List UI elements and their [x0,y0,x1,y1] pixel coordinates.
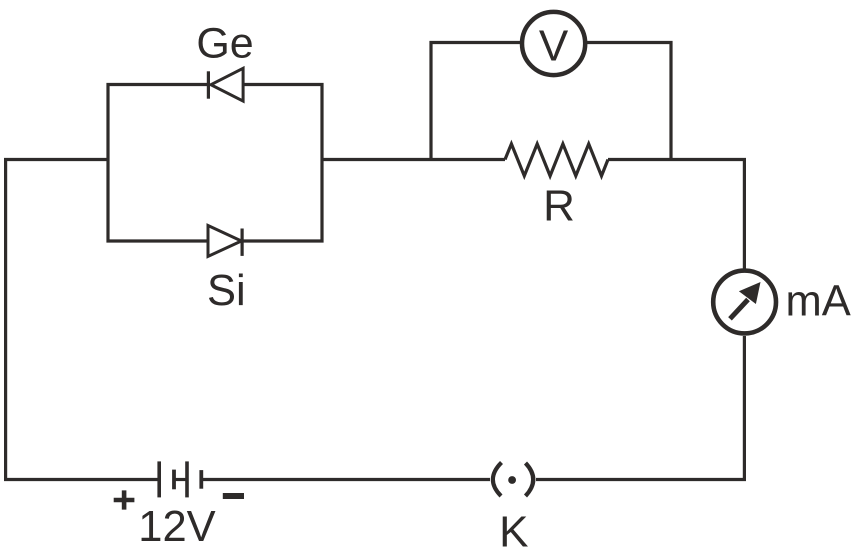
battery B1 12V: positive long plate (cell 2) [185,461,189,497]
battery polarity + sign [114,490,135,509]
milliammeter mA: needle arrowhead [739,282,761,304]
wire right: mA meter top up and left along main line to resistor right end [608,160,744,269]
wire voltmeter branch left: from main line up to V meter [431,43,520,160]
svg-text:Ge: Ge [196,20,253,68]
svg-text:K: K [499,507,528,551]
svg-text:mA: mA [786,277,851,325]
key K: left contact arc [493,463,502,497]
wire left branch: from diode box left to left edge, down and along bottom to battery + plate [6,160,158,480]
wire bottom: battery - terminal to key K [203,478,491,481]
diode D1 Ge: cathode bar [207,71,210,98]
diode D2 Si: triangle (pointing right) [208,226,241,257]
wire battery internal link [175,478,186,481]
milliammeter mA: needle shaft [730,300,748,319]
wire diode box right portion [242,85,322,242]
battery B1 12V: positive long plate (cell 1) [157,461,161,497]
diode D2 Si: cathode bar [241,229,244,256]
wire main: diode box right side to resistor left end [322,158,505,161]
wire voltmeter branch right: from V meter down to main line [587,43,671,160]
battery B1 12V: negative short plate (cell 2) [199,470,203,489]
key K: right contact arc [526,463,534,496]
battery polarity - sign [223,493,244,499]
wire diode box left portion (top, left, bottom sides up to diodes) [108,85,208,242]
svg-text:Si: Si [207,267,246,315]
key K: center contact dot [508,476,516,484]
svg-text:R: R [543,181,575,230]
svg-text:12V: 12V [138,503,215,551]
svg-text:V: V [539,22,569,71]
voltmeter V: circle body [522,12,585,75]
diode D1 Ge: triangle (pointing left) [211,68,243,101]
resistor R zigzag [505,144,608,176]
wire bottom right: key K to right corner, up to mA meter [536,336,744,480]
battery B1 12V: negative short plate (cell 1) [172,470,176,490]
milliammeter mA: circle body [713,271,776,334]
